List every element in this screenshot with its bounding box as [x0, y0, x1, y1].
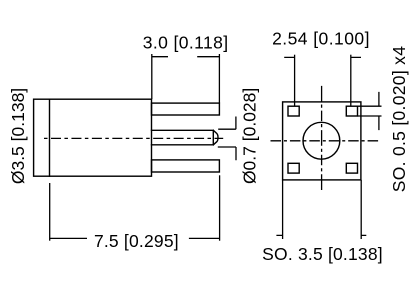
- pad top-left: [288, 106, 299, 116]
- body flange line: [49, 99, 51, 176]
- svg-text:SO. 0.5 [0.020] x4: SO. 0.5 [0.020] x4: [389, 46, 409, 192]
- dimension sq 3.5 extension lines: [282, 180, 284, 239]
- center pin: [152, 130, 219, 145]
- dimension 3.0 extension lines: [151, 54, 153, 99]
- footprint vertical centerline: [321, 86, 323, 191]
- dimension sq 0.5 extension lines: [358, 106, 382, 116]
- dimension 7.5 line: [50, 237, 220, 239]
- dimension 2.54 extension lines: [294, 55, 296, 106]
- dimension 3.0 line: [152, 56, 220, 58]
- dimension sq 3.5 line: [276, 234, 366, 236]
- footprint outer square: [283, 102, 361, 180]
- center hole circle: [303, 122, 340, 159]
- top leg: [152, 103, 220, 115]
- svg-text:3.0 [0.118]: 3.0 [0.118]: [143, 32, 229, 52]
- svg-text:Ø3.5 [0.138]: Ø3.5 [0.138]: [8, 88, 28, 184]
- dimension 2.54 line: [284, 56, 361, 58]
- dimension pin diameter lower bracket: [218, 147, 236, 160]
- svg-text:SO. 3.5 [0.138]: SO. 3.5 [0.138]: [262, 244, 383, 264]
- dimension sq 0.5 line: [378, 92, 380, 130]
- footprint horizontal centerline: [271, 140, 379, 142]
- svg-text:7.5 [0.295]: 7.5 [0.295]: [94, 231, 179, 251]
- pad bottom-left: [288, 163, 299, 173]
- centerline (side view): [44, 137, 223, 139]
- pad bottom-right: [346, 163, 357, 173]
- dimension pin diameter upper bracket: [218, 117, 236, 130]
- svg-text:2.54 [0.100]: 2.54 [0.100]: [272, 29, 370, 49]
- dimension 7.5 extension lines: [49, 183, 51, 241]
- pad top-right: [346, 106, 357, 116]
- connector body outline (side view): [34, 99, 152, 176]
- svg-text:Ø0.7 [0.028]: Ø0.7 [0.028]: [240, 88, 260, 184]
- bottom leg: [152, 160, 220, 172]
